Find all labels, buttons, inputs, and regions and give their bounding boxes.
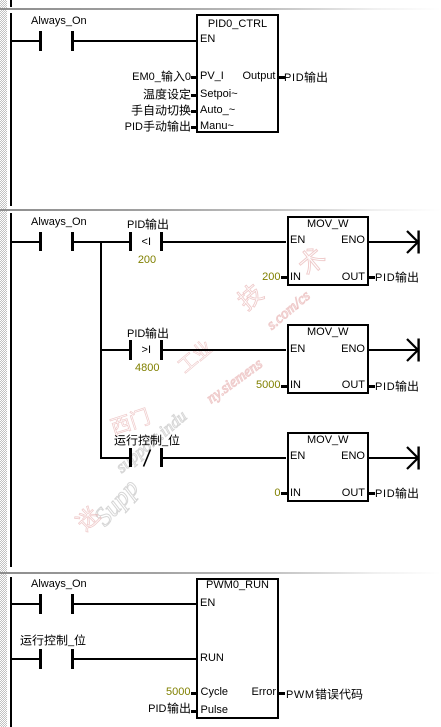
arrow branch2 [404,338,424,362]
branch vertical line x=100 [100,241,102,459]
stub OUT branch3 [369,492,375,495]
operand PID手动输出 [125,120,191,133]
watermark CJK 工业 [174,337,219,380]
stub OUT branch2 [369,385,375,388]
watermark CJK 迷 [72,503,107,538]
network separator 3 [0,572,441,574]
wire contact to MOV_W box branch2 [163,349,286,351]
contact Always_On net2 [39,232,42,252]
wire contact to MOV_W box branch1 [163,241,286,243]
operand PID输出 branch1 out [375,271,419,284]
operand PID输出 Pulse [148,702,190,715]
operand EM0_输入0 [132,70,191,83]
arrow branch1 [404,230,424,254]
network separator 2 [0,209,441,211]
wire rail to contact net3 rung1 [12,603,39,605]
watermark CJK 术 [293,242,333,282]
operand PWM错误代码 [286,688,363,701]
stub Auto [191,110,197,113]
pin Error [252,686,276,698]
label 运行控制_位 net3 [20,634,86,647]
wire contact to PWM box rung1 [74,603,198,605]
wire rail to contact net3 rung2 [12,658,39,660]
value 0 branch3 [274,487,280,499]
stub Manu [191,126,197,129]
wire ENO to arrow branch2 [369,349,418,351]
pin IN branch3 [290,487,301,499]
pin RUN [200,652,224,664]
stub OUT branch1 [369,276,375,279]
wire rail to contact net1 [12,40,39,42]
contact branch1 [129,232,132,252]
wire rail to contact net2 [12,241,39,243]
power rail network 1 [10,13,12,206]
pin EN branch2 [290,343,305,355]
PWM0_RUN box U2 [196,578,279,719]
label Always_On net2 [31,216,87,228]
stub PV_I [191,76,197,79]
pin OUT branch1 [342,271,365,283]
value 200 branch1 [262,271,280,283]
PID0_CTRL box U1 [196,14,279,133]
contact branch3 [129,448,132,468]
stub IN branch2 [281,385,287,388]
pin Cycle [201,686,229,698]
label above contact branch3 [114,434,180,447]
pin IN branch1 [290,271,301,283]
pin EN branch1 [290,234,305,246]
MOV_W box branch3 [287,432,370,502]
operand PID输出 branch2 out [375,380,419,393]
wire ENO to arrow branch3 [369,457,418,459]
contact Always_On net3 [39,594,42,614]
pin PV_I [200,70,224,82]
contact 运行控制_位 net3 [39,649,42,669]
stub Pulse [191,710,197,713]
value 4800 under contact branch2 [135,362,159,374]
stub Cycle [191,692,197,695]
pin Setpoi~ [200,88,238,100]
contact Always_On net1 (two bars) [39,31,42,51]
stub Setpoi [191,94,197,97]
network separator 1 [0,8,441,10]
pin EN net1 [200,33,215,45]
wire contact to branch1 comparator [74,241,130,243]
pin Pulse [201,704,229,716]
watermark CJK 技 [233,280,270,318]
title PWM0_RUN [196,579,279,591]
pin Manu~ [200,120,234,132]
watermark cursive Supp large [88,473,145,532]
pin ENO branch2 [341,343,365,355]
value 200 under contact branch1 [135,254,159,266]
wire contact to PID box [74,40,198,42]
stub Output [279,76,285,79]
pin Output [242,70,275,82]
operand 温度设定 [143,88,191,101]
watermark CJK 西门 [108,406,154,442]
stub IN branch3 [281,492,287,495]
label above contact branch1 [127,218,169,231]
slash of NOT contact branch3 [141,448,153,468]
label Always_On net3 [31,578,87,590]
pin ENO branch3 [341,450,365,462]
pin EN branch3 [290,450,305,462]
pin OUT branch3 [342,487,365,499]
value 5000 branch2 [256,379,280,391]
label above contact branch2 [127,327,169,340]
wire contact to MOV_W box branch3 [163,457,286,459]
title MOV_W branch3 [287,434,370,446]
operand PID输出 net1 out [284,71,328,84]
contact branch2 [129,340,132,360]
wire branch line to contact branch3 [102,457,129,459]
label Always_On net1 [31,15,87,27]
stub IN branch1 [281,276,287,279]
MOV_W box branch2 [287,324,370,394]
watermark cursive ny.siemens [204,356,266,408]
operand 手自动切换 [131,104,191,117]
left gutter hatch [0,0,7,727]
wire contact to PWM box rung2 [74,658,198,660]
value 5000 Cycle [166,686,190,698]
watermark cursive support.indu [112,406,191,477]
stub Error [279,692,285,695]
watermark cursive .com/cs [264,288,314,334]
power rail network 3 [10,577,12,727]
pin OUT branch2 [342,379,365,391]
power rail network 2 [10,213,12,567]
pin EN net3 [200,597,215,609]
pin ENO branch1 [341,234,365,246]
pin Auto_~ [200,104,235,116]
title MOV_W branch1 [287,218,370,230]
MOV_W box branch1 [287,216,370,286]
power rail stub above network 1 [10,0,12,7]
operand PID输出 branch3 out [375,487,419,500]
title MOV_W branch2 [287,326,370,338]
pin IN branch2 [290,379,301,391]
arrow branch3 [404,446,424,470]
wire branch line to contact branch2 [102,349,129,351]
title PID0_CTRL [196,18,279,30]
wire ENO to arrow branch1 [369,241,418,243]
